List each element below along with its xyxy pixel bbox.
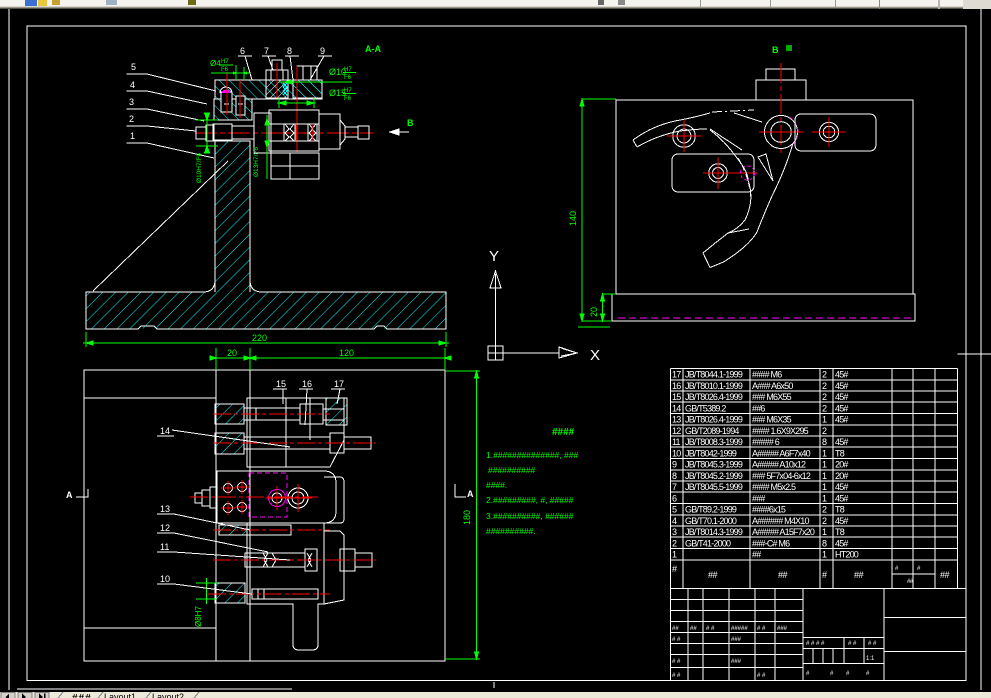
svg-text:12: 12 <box>160 523 170 533</box>
right flange lower <box>324 477 344 523</box>
svg-text:10: 10 <box>160 574 170 584</box>
svg-text:120: 120 <box>339 348 354 358</box>
spring zigzag in arm <box>283 83 287 95</box>
svg-text:#: # <box>822 570 827 580</box>
svg-text:7: 7 <box>264 46 269 56</box>
svg-text:A: A <box>467 489 474 499</box>
svg-text:JB/T8045.3-1999: JB/T8045.3-1999 <box>685 460 743 470</box>
lever left edge sweep <box>710 130 751 233</box>
svg-text:Layout2: Layout2 <box>152 692 184 698</box>
svg-text:45#: 45# <box>835 392 848 402</box>
svg-text:#### M5x2.5: #### M5x2.5 <box>752 482 796 492</box>
B view (top-right) <box>568 45 915 327</box>
magenta dashed circle lower <box>741 166 755 180</box>
svg-text:45#: 45# <box>835 403 848 413</box>
svg-text:JB/T8042-1999: JB/T8042-1999 <box>685 448 737 458</box>
magenta dashed line in base band <box>618 317 913 319</box>
lever dash-dot top <box>712 110 754 112</box>
svg-text:4: 4 <box>130 80 135 90</box>
svg-text:20: 20 <box>589 307 599 317</box>
svg-text:45#: 45# <box>835 370 848 380</box>
svg-text:3: 3 <box>129 97 134 107</box>
svg-text:B: B <box>407 118 414 128</box>
lever handle grip <box>703 233 728 268</box>
red centerline bushing 7 <box>276 63 278 98</box>
svg-text:##: ## <box>708 570 718 580</box>
svg-text:###: ### <box>72 693 92 698</box>
svg-text:F6: F6 <box>344 96 352 102</box>
svg-text:45#: 45# <box>835 482 848 492</box>
lower slot circle <box>709 164 728 183</box>
svg-text:##: ## <box>940 570 950 580</box>
plate outline <box>84 370 445 661</box>
dim phi10 vertical green left <box>206 115 208 148</box>
svg-text:Ø4: Ø4 <box>210 59 221 68</box>
middle body block <box>217 471 336 523</box>
red centerline screw left <box>226 72 228 115</box>
svg-text:### M6X35: ### M6X35 <box>752 415 792 425</box>
svg-text:# #: # # <box>757 673 766 679</box>
magenta arc on bushing <box>789 117 798 147</box>
model/layout tab bar (partial, bottom) <box>0 692 991 698</box>
base band below plate <box>612 294 915 321</box>
lever curved arm upper-left <box>633 113 710 140</box>
bushing block white-hatched <box>267 81 288 99</box>
bracket below arm <box>214 99 252 120</box>
svg-text:1:1: 1:1 <box>866 656 875 662</box>
svg-text:JB/T8044.1-1999: JB/T8044.1-1999 <box>685 370 743 380</box>
svg-text:# #: # # <box>672 637 681 643</box>
left circle <box>673 125 696 148</box>
svg-text:11: 11 <box>672 437 681 447</box>
lever hidden dashed arc <box>738 158 751 200</box>
svg-text:##: ## <box>690 626 697 632</box>
bushing assembly right part of arm <box>293 80 322 98</box>
leader line callout 1 <box>147 143 214 158</box>
svg-text:##########.: ##########. <box>486 526 536 536</box>
magenta dashed rect <box>249 473 287 517</box>
bushing 9 sticking above arm <box>297 66 317 80</box>
svg-text:##### 6: ##### 6 <box>752 437 780 447</box>
A-A section view of drill jig (top-left) <box>83 44 449 347</box>
svg-text:T8: T8 <box>835 527 845 537</box>
svg-text:##: ## <box>672 626 679 632</box>
svg-text:# #: # # <box>868 641 877 647</box>
svg-text:####.: ####. <box>486 480 507 490</box>
stud row 1 <box>216 404 244 424</box>
toolbar strip (partial, top of CAD window) <box>0 0 991 9</box>
svg-text:1.##############, ###: 1.##############, ### <box>486 450 578 460</box>
svg-text:Ø13H7/F6: Ø13H7/F6 <box>253 147 260 177</box>
right slot <box>795 114 876 151</box>
spindle housing <box>269 110 319 151</box>
svg-text:6: 6 <box>240 46 245 56</box>
red centerline bushing 9 <box>296 66 298 152</box>
svg-text:##: ## <box>778 570 788 580</box>
svg-text:12: 12 <box>672 426 681 436</box>
stud row 6 <box>216 584 245 604</box>
svg-text:5: 5 <box>131 62 136 72</box>
svg-text:A###### M4X10: A###### M4X10 <box>752 516 809 526</box>
svg-text:##6: ##6 <box>752 403 765 413</box>
svg-text:JB/T8026.4-1999: JB/T8026.4-1999 <box>685 415 743 425</box>
big double circle <box>288 488 308 508</box>
svg-text:GB/T5389.2: GB/T5389.2 <box>685 403 726 413</box>
svg-text:# # # #: # # # # <box>806 641 825 647</box>
svg-text:# #: # # <box>706 626 715 632</box>
bracket below housing <box>271 153 319 179</box>
dim phi8 green bottom left <box>206 578 208 604</box>
leader line callout 2 <box>147 126 196 131</box>
svg-text:1: 1 <box>130 131 135 141</box>
svg-text:45#: 45# <box>835 539 848 549</box>
title block labels <box>672 626 877 679</box>
dim 180 vertical right <box>476 371 478 659</box>
svg-text:JB/T8045.2-1999: JB/T8045.2-1999 <box>685 471 743 481</box>
svg-text:20#: 20# <box>835 471 848 481</box>
leader line callout 4 <box>147 91 207 104</box>
stepped shaft right <box>319 114 340 149</box>
BOM rows text <box>672 370 859 560</box>
svg-text:### M6X55: ### M6X55 <box>752 392 792 402</box>
svg-text:JB/T8045.5-1999: JB/T8045.5-1999 <box>685 482 743 492</box>
big bushing circles <box>765 116 798 149</box>
svg-text:45#: 45# <box>835 493 848 503</box>
web around bushing <box>710 113 762 150</box>
svg-text:H7: H7 <box>221 59 229 65</box>
plate outline <box>616 100 913 294</box>
svg-text:###: ### <box>731 659 742 665</box>
svg-text:GB/T70.1-2000: GB/T70.1-2000 <box>685 516 737 526</box>
red centerline screw mid <box>239 80 241 118</box>
svg-text:# #: # # <box>672 673 681 679</box>
BOM parts list table <box>671 354 991 589</box>
leader line callout 5 <box>147 74 216 91</box>
hatch notch top right <box>326 398 347 425</box>
leader line callout 3 <box>147 109 204 121</box>
svg-text:3.##########, ######: 3.##########, ###### <box>486 511 574 521</box>
screw head above arm <box>266 70 288 80</box>
svg-text:140: 140 <box>568 211 578 226</box>
svg-text:Ø8H7: Ø8H7 <box>194 606 203 627</box>
svg-text:# #: # # <box>757 626 766 632</box>
lower slot <box>672 154 754 192</box>
svg-text:T8: T8 <box>835 448 845 458</box>
svg-text:11: 11 <box>160 542 169 552</box>
svg-text:9: 9 <box>320 46 325 56</box>
svg-text:A##### A15F7x20: A##### A15F7x20 <box>752 527 815 537</box>
svg-text:#####: ##### <box>731 626 748 632</box>
top boss <box>756 80 806 100</box>
svg-text:F6: F6 <box>221 67 229 73</box>
magenta pin <box>222 90 231 93</box>
svg-text:14: 14 <box>672 403 681 413</box>
svg-text:17: 17 <box>334 379 344 389</box>
svg-text:2: 2 <box>129 114 134 124</box>
svg-text:GB/T2089-1994: GB/T2089-1994 <box>685 426 739 436</box>
svg-text:17: 17 <box>672 370 681 380</box>
svg-text:##: ## <box>854 570 864 580</box>
stud row 2 <box>216 433 244 454</box>
svg-text:Ø10H7/F6: Ø10H7/F6 <box>196 153 203 183</box>
svg-text:#### 1.6X9X295: #### 1.6X9X295 <box>752 426 809 436</box>
spring sections in housing <box>285 124 294 141</box>
svg-text:45#: 45# <box>835 516 848 526</box>
svg-text:A-A: A-A <box>365 44 381 54</box>
svg-text:#### M6: #### M6 <box>752 370 782 380</box>
svg-text:# #: # # <box>672 659 681 665</box>
svg-text:A: A <box>66 490 73 500</box>
leader 14 <box>172 430 290 447</box>
svg-text:B: B <box>772 45 779 55</box>
BOM header row <box>672 564 950 585</box>
dim 220 below base <box>85 332 87 347</box>
right slot circle <box>819 122 838 141</box>
svg-text:180: 180 <box>462 510 472 525</box>
stud row 5 with springs <box>245 553 305 567</box>
svg-text:HT200: HT200 <box>835 550 859 560</box>
dim 140 vertical <box>581 99 583 321</box>
svg-text:15: 15 <box>276 379 286 389</box>
svg-text:###: ### <box>752 493 765 503</box>
technical requirement notes (green) <box>486 427 578 536</box>
svg-text:GB/T41-2000: GB/T41-2000 <box>685 539 731 549</box>
stud row 4 <box>219 525 291 535</box>
dim 20 vertical <box>602 294 604 321</box>
svg-text:JB/T8010.1-1999: JB/T8010.1-1999 <box>685 381 743 391</box>
svg-text:F6: F6 <box>344 75 352 81</box>
svg-text:8: 8 <box>287 46 292 56</box>
column of stand (hatched) <box>216 141 250 292</box>
horizontal scrollbar edge fragment <box>17 688 292 690</box>
lever joint line across band <box>728 229 749 233</box>
svg-text:45#: 45# <box>835 415 848 425</box>
dims 20 and 120 <box>215 348 217 370</box>
svg-text:14: 14 <box>160 426 170 436</box>
svg-text:JB/T8026.4-1999: JB/T8026.4-1999 <box>685 392 743 402</box>
four bolt circles <box>224 484 233 493</box>
svg-text:Layout1: Layout1 <box>104 692 136 698</box>
svg-text:# #: # # <box>848 641 857 647</box>
long leader diagonal line <box>93 161 228 291</box>
svg-text:#: # <box>672 564 677 574</box>
title block <box>671 589 966 681</box>
svg-text:20#: 20# <box>835 460 848 470</box>
svg-text:10: 10 <box>672 448 681 458</box>
UCS coordinate icon <box>488 248 600 364</box>
svg-text:Y: Y <box>489 248 499 265</box>
svg-text:T8: T8 <box>835 505 845 515</box>
svg-text:##: ## <box>752 550 761 560</box>
spindle centerline red <box>195 132 373 134</box>
svg-text:###: ### <box>731 637 742 643</box>
svg-text:### 5F7x04-6x12: ### 5F7x04-6x12 <box>752 471 811 481</box>
screw holes in bracket <box>221 92 232 112</box>
svg-text:15: 15 <box>672 392 681 402</box>
vertical plate on spindle <box>254 113 271 153</box>
svg-text:JB/T8014.3-1999: JB/T8014.3-1999 <box>685 527 743 537</box>
svg-text:16: 16 <box>672 381 681 391</box>
left nut on spindle <box>196 127 206 139</box>
arm plate (hatched) <box>215 80 322 99</box>
svg-text:45#: 45# <box>835 381 848 391</box>
svg-text:###-C# M6: ###-C# M6 <box>752 539 790 549</box>
red centerline boss <box>780 63 782 156</box>
base plate of stand (hatched) <box>86 141 446 329</box>
svg-text:X: X <box>590 347 600 364</box>
magenta highlighted circle <box>269 490 286 507</box>
svg-text:16: 16 <box>302 379 312 389</box>
svg-text:20: 20 <box>227 348 237 358</box>
left clamp screw end <box>195 493 202 503</box>
svg-text:###: ### <box>777 626 788 632</box>
svg-text:2.#########, #, #####: 2.#########, #, ##### <box>486 495 574 505</box>
dim phi13 vertical green <box>266 115 268 179</box>
bushing crosshair <box>759 131 803 133</box>
lever right edge from bushing <box>724 143 794 262</box>
svg-text:GB/T89.2-1999: GB/T89.2-1999 <box>685 505 737 515</box>
svg-text:A##### A6F7x40: A##### A6F7x40 <box>752 448 811 458</box>
svg-text:13: 13 <box>160 504 170 514</box>
lower body and tail <box>247 523 324 650</box>
upper bracket body outline <box>247 398 344 467</box>
svg-text:####6x15: ####6x15 <box>752 505 786 515</box>
svg-text:13: 13 <box>672 415 681 425</box>
plan view (bottom-left) <box>66 348 480 661</box>
svg-text:45#: 45# <box>835 437 848 447</box>
svg-text:##########: ########## <box>488 465 536 475</box>
svg-text:JB/T8008.3-1999: JB/T8008.3-1999 <box>685 437 743 447</box>
svg-text:A### A6x50: A### A6x50 <box>752 381 793 391</box>
svg-text:220: 220 <box>252 333 267 343</box>
svg-text:A##### A10x12: A##### A10x12 <box>752 460 806 470</box>
svg-text:####: #### <box>552 427 575 438</box>
